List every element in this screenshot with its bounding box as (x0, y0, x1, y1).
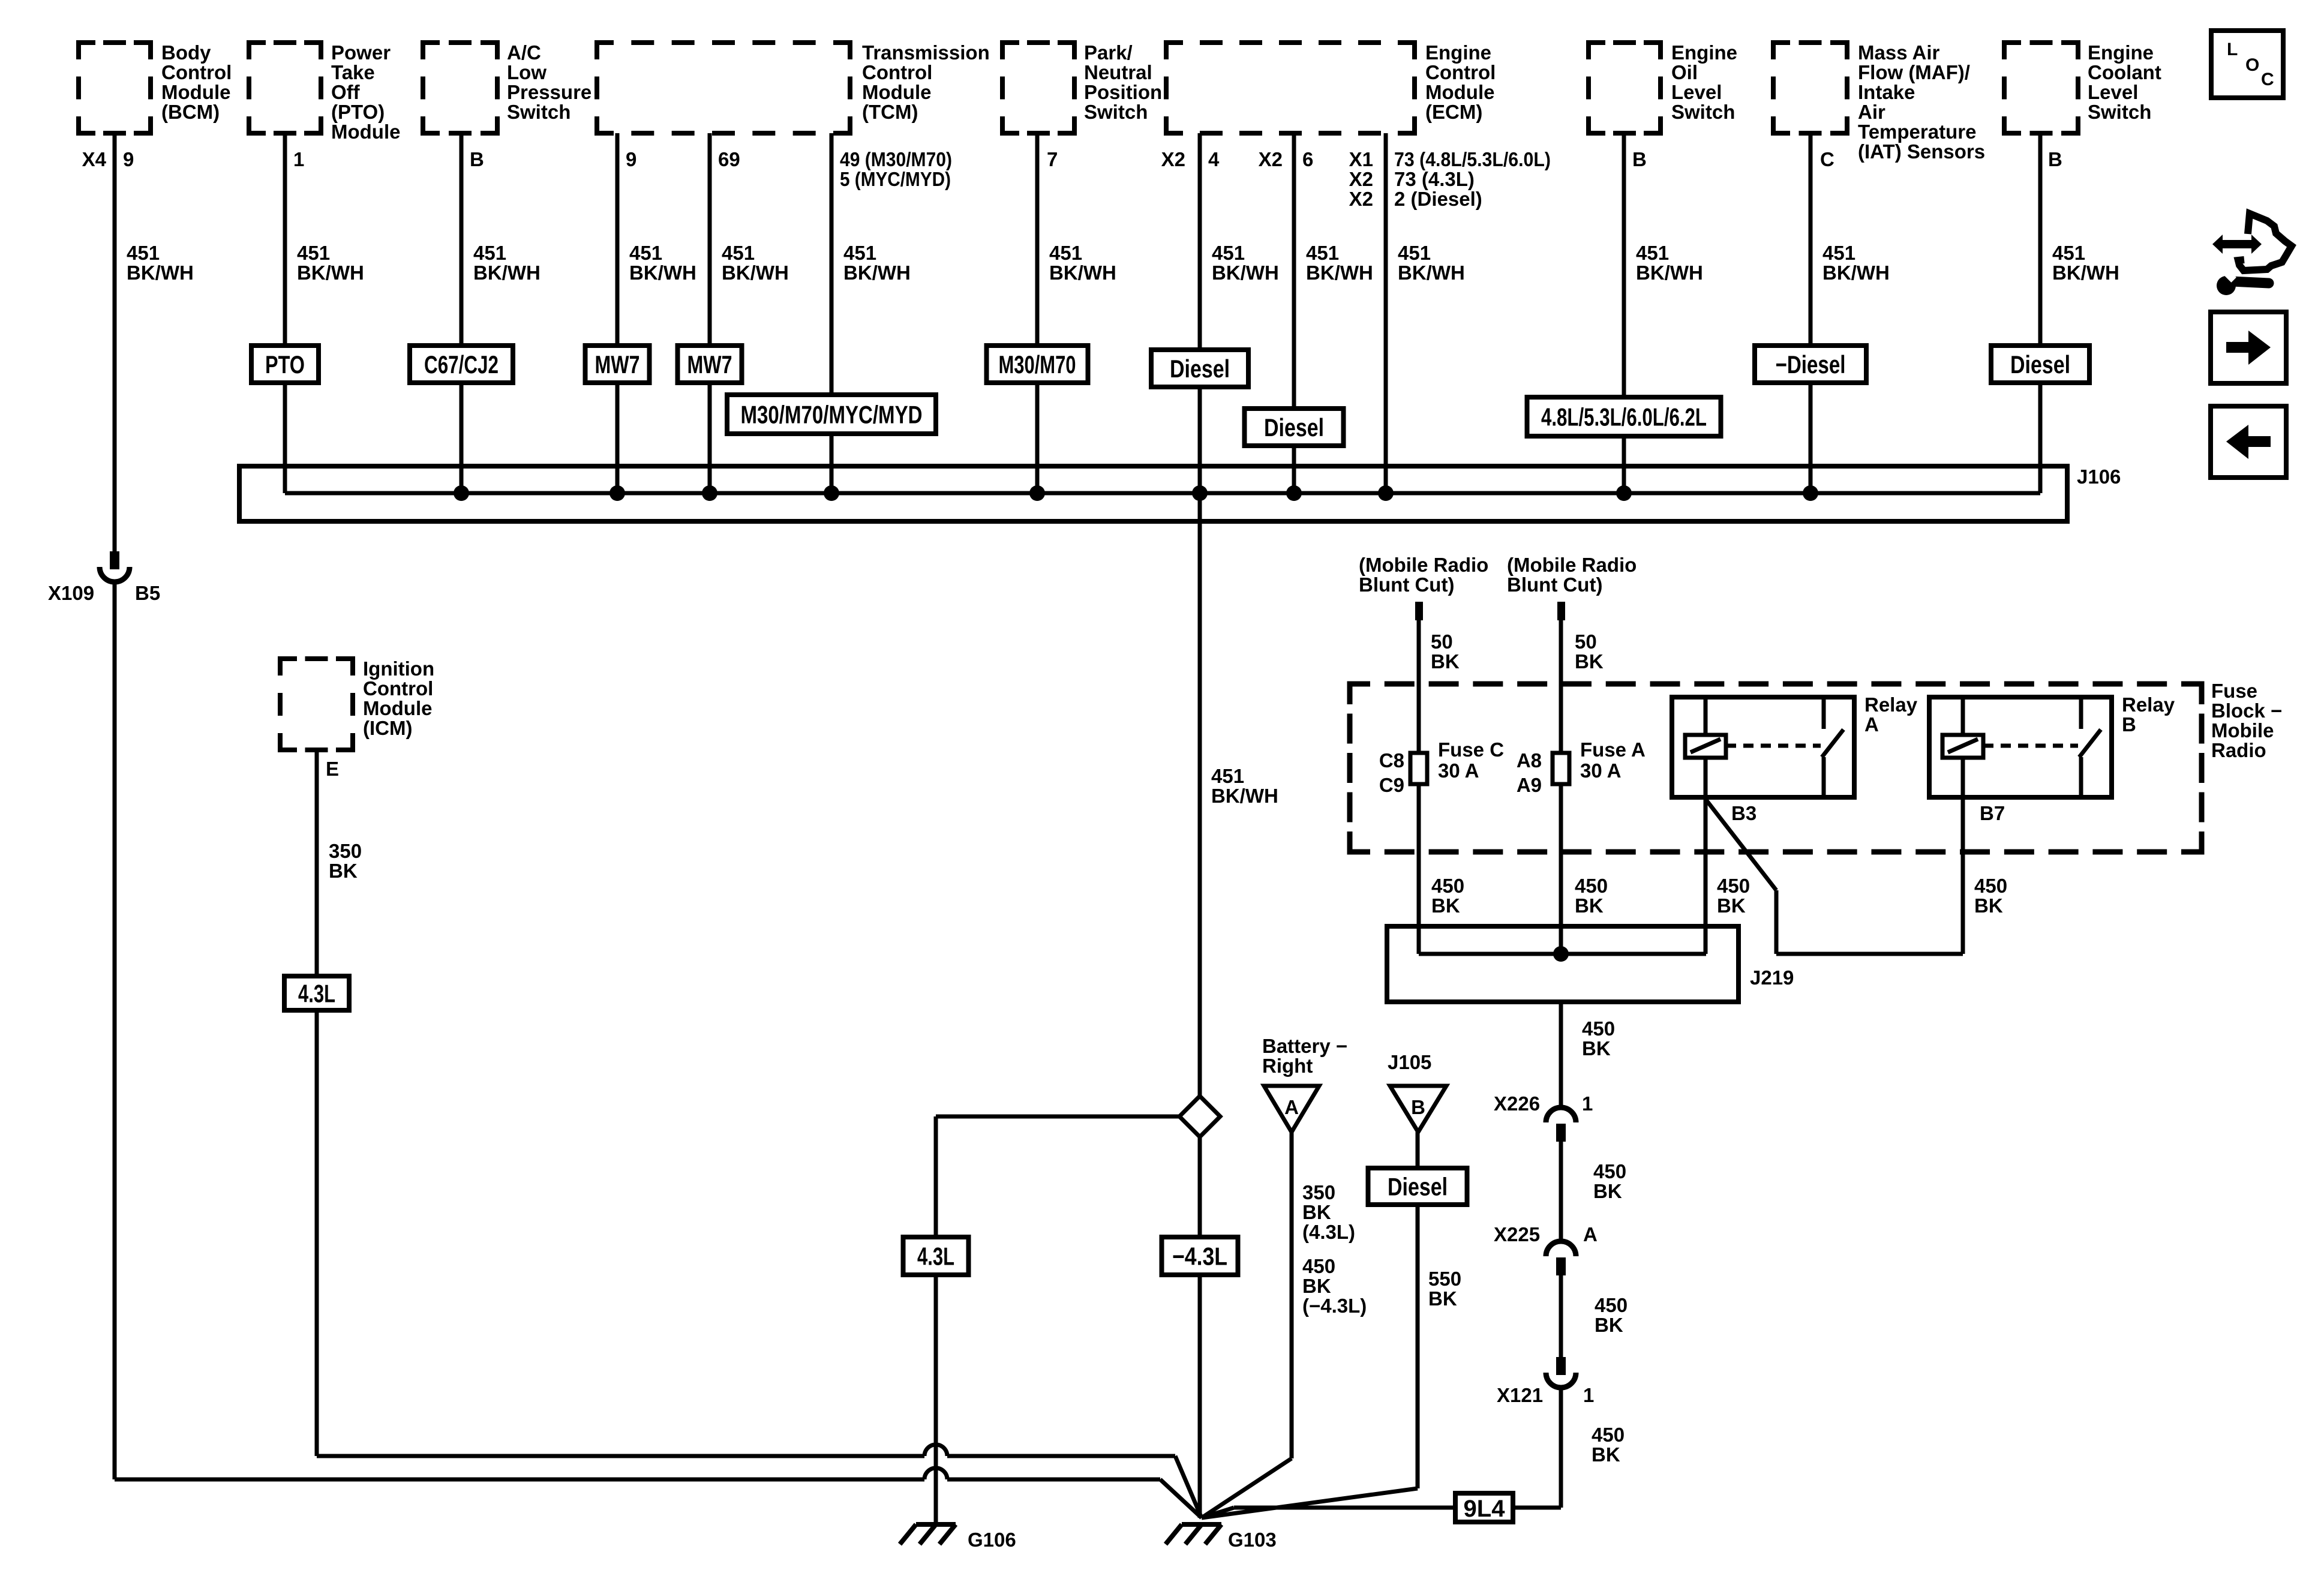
svg-text:BK: BK (1717, 894, 1746, 917)
svg-text:X2: X2 (1161, 148, 1185, 170)
svg-text:(Mobile Radio: (Mobile Radio (1359, 554, 1488, 576)
svg-text:Control: Control (363, 677, 433, 700)
svg-text:Right: Right (1262, 1055, 1313, 1077)
svg-text:Mobile: Mobile (2211, 719, 2274, 742)
svg-text:Body: Body (161, 41, 211, 64)
svg-text:X2: X2 (1349, 188, 1373, 210)
svg-text:6: 6 (1302, 148, 1313, 170)
svg-text:B: B (1411, 1096, 1425, 1118)
svg-text:Diesel: Diesel (1170, 355, 1230, 383)
svg-text:450: 450 (1575, 875, 1608, 897)
svg-text:BK/WH: BK/WH (1211, 785, 1278, 807)
svg-text:M30/M70/MYC/MYD: M30/M70/MYC/MYD (741, 401, 923, 429)
svg-text:Diesel: Diesel (2010, 350, 2070, 379)
svg-text:Relay: Relay (2122, 694, 2175, 716)
svg-text:PTO: PTO (265, 350, 305, 379)
svg-text:450: 450 (1592, 1424, 1625, 1446)
svg-text:Engine: Engine (2088, 41, 2154, 64)
svg-text:A: A (1864, 713, 1879, 736)
svg-text:Radio: Radio (2211, 739, 2266, 761)
svg-text:4: 4 (1208, 148, 1220, 170)
svg-text:L: L (2227, 40, 2238, 59)
svg-text:50: 50 (1431, 631, 1453, 653)
svg-text:Pressure: Pressure (507, 81, 591, 103)
svg-text:BK: BK (1582, 1037, 1611, 1059)
svg-text:B7: B7 (1980, 802, 2005, 824)
svg-text:Neutral: Neutral (1084, 61, 1152, 83)
svg-text:(IAT) Sensors: (IAT) Sensors (1858, 140, 1985, 163)
svg-text:X4: X4 (82, 148, 107, 170)
svg-text:7: 7 (1047, 148, 1058, 170)
svg-text:BK: BK (1428, 1287, 1457, 1310)
svg-text:C67/CJ2: C67/CJ2 (424, 350, 499, 379)
svg-text:(PTO): (PTO) (331, 101, 385, 123)
svg-text:MW7: MW7 (687, 350, 732, 379)
svg-text:X109: X109 (48, 582, 94, 604)
svg-text:30 A: 30 A (1580, 760, 1621, 782)
svg-text:MW7: MW7 (595, 350, 640, 379)
svg-text:Engine: Engine (1425, 41, 1491, 64)
svg-text:Diesel: Diesel (1264, 413, 1324, 442)
svg-text:451: 451 (1211, 765, 1244, 787)
svg-text:451: 451 (1636, 242, 1669, 264)
svg-text:9L4: 9L4 (1464, 1496, 1506, 1522)
svg-text:451: 451 (127, 242, 160, 264)
svg-text:Switch: Switch (2088, 101, 2151, 123)
svg-text:A: A (1583, 1223, 1598, 1245)
svg-text:2 (Diesel): 2 (Diesel) (1394, 188, 1482, 210)
svg-text:Fuse A: Fuse A (1580, 739, 1646, 761)
svg-text:B: B (470, 148, 484, 170)
svg-text:451: 451 (1306, 242, 1339, 264)
svg-text:450: 450 (1582, 1017, 1615, 1040)
svg-text:Air: Air (1858, 101, 1885, 123)
svg-text:49 (M30/M70): 49 (M30/M70) (840, 148, 952, 170)
svg-text:Ignition: Ignition (363, 658, 434, 680)
svg-text:Coolant: Coolant (2088, 61, 2161, 83)
svg-text:BK: BK (1302, 1275, 1331, 1297)
svg-text:BK: BK (1974, 894, 2003, 917)
svg-text:73 (4.8L/5.3L/6.0L): 73 (4.8L/5.3L/6.0L) (1394, 148, 1551, 170)
svg-text:X225: X225 (1494, 1223, 1540, 1245)
svg-text:BK/WH: BK/WH (843, 262, 911, 284)
svg-text:Intake: Intake (1858, 81, 1915, 103)
svg-text:B: B (1632, 148, 1647, 170)
svg-text:BK/WH: BK/WH (2052, 262, 2119, 284)
svg-text:69: 69 (718, 148, 740, 170)
svg-text:E: E (326, 758, 339, 780)
svg-text:Transmission: Transmission (862, 41, 990, 64)
svg-text:Module: Module (331, 121, 400, 143)
svg-text:A9: A9 (1517, 774, 1542, 796)
svg-text:X1: X1 (1349, 148, 1373, 170)
svg-text:1: 1 (293, 148, 304, 170)
svg-text:B: B (2122, 713, 2136, 736)
svg-text:Engine: Engine (1671, 41, 1737, 64)
svg-text:J219: J219 (1750, 966, 1794, 989)
svg-text:Switch: Switch (507, 101, 571, 123)
svg-text:BK: BK (1595, 1314, 1623, 1336)
svg-text:Battery −: Battery − (1262, 1035, 1347, 1057)
svg-text:Flow (MAF)/: Flow (MAF)/ (1858, 61, 1970, 83)
svg-text:5 (MYC/MYD): 5 (MYC/MYD) (840, 168, 951, 190)
svg-text:451: 451 (1822, 242, 1855, 264)
svg-text:451: 451 (1212, 242, 1245, 264)
svg-text:451: 451 (297, 242, 330, 264)
svg-text:J105: J105 (1388, 1051, 1431, 1073)
svg-text:Low: Low (507, 61, 547, 83)
svg-text:BK: BK (1592, 1443, 1620, 1466)
svg-text:BK/WH: BK/WH (473, 262, 541, 284)
svg-text:G103: G103 (1228, 1529, 1277, 1551)
svg-text:BK: BK (1302, 1201, 1331, 1223)
svg-text:BK/WH: BK/WH (722, 262, 789, 284)
svg-text:BK/WH: BK/WH (1212, 262, 1279, 284)
svg-text:350: 350 (329, 840, 362, 862)
svg-text:A8: A8 (1517, 749, 1542, 772)
svg-text:Fuse C: Fuse C (1438, 739, 1504, 761)
svg-text:451: 451 (473, 242, 506, 264)
svg-text:9: 9 (626, 148, 636, 170)
svg-text:C8: C8 (1379, 749, 1404, 772)
svg-text:451: 451 (1049, 242, 1082, 264)
svg-text:C: C (1820, 148, 1834, 170)
svg-text:(BCM): (BCM) (161, 101, 220, 123)
svg-text:M30/M70: M30/M70 (999, 350, 1076, 379)
svg-text:Switch: Switch (1084, 101, 1148, 123)
svg-text:BK/WH: BK/WH (127, 262, 194, 284)
svg-text:Temperature: Temperature (1858, 121, 1976, 143)
svg-text:Module: Module (862, 81, 931, 103)
svg-text:(Mobile Radio: (Mobile Radio (1507, 554, 1637, 576)
svg-text:Fuse: Fuse (2211, 680, 2257, 702)
svg-text:X226: X226 (1494, 1092, 1540, 1115)
svg-text:50: 50 (1575, 631, 1597, 653)
svg-text:450: 450 (1595, 1294, 1628, 1316)
svg-text:Control: Control (862, 61, 932, 83)
svg-text:Diesel: Diesel (1388, 1173, 1448, 1201)
svg-text:BK: BK (1593, 1180, 1622, 1202)
svg-text:BK/WH: BK/WH (1049, 262, 1116, 284)
svg-text:Control: Control (1425, 61, 1496, 83)
svg-text:9: 9 (123, 148, 134, 170)
svg-text:Park/: Park/ (1084, 41, 1133, 64)
svg-text:4.3L: 4.3L (917, 1242, 954, 1271)
svg-text:450: 450 (1717, 875, 1750, 897)
svg-text:Take: Take (331, 61, 375, 83)
svg-text:−Diesel: −Diesel (1776, 350, 1846, 379)
svg-text:B: B (2048, 148, 2062, 170)
svg-text:Position: Position (1084, 81, 1162, 103)
svg-text:(−4.3L): (−4.3L) (1302, 1295, 1367, 1317)
svg-text:X2: X2 (1349, 168, 1373, 190)
svg-text:Module: Module (1425, 81, 1494, 103)
svg-text:Module: Module (363, 697, 432, 719)
svg-text:450: 450 (1302, 1255, 1335, 1277)
svg-text:Level: Level (1671, 81, 1722, 103)
svg-text:Off: Off (331, 81, 361, 103)
svg-text:4.8L/5.3L/6.0L/6.2L: 4.8L/5.3L/6.0L/6.2L (1541, 403, 1707, 431)
svg-text:1: 1 (1582, 1092, 1593, 1115)
svg-text:Blunt Cut): Blunt Cut) (1507, 574, 1602, 596)
svg-text:O: O (2245, 55, 2259, 75)
svg-text:350: 350 (1302, 1181, 1335, 1203)
svg-text:550: 550 (1428, 1268, 1461, 1290)
svg-text:BK: BK (1431, 894, 1460, 917)
svg-text:451: 451 (629, 242, 662, 264)
svg-text:450: 450 (1974, 875, 2007, 897)
svg-text:BK: BK (1431, 650, 1460, 673)
svg-text:(ICM): (ICM) (363, 717, 412, 739)
svg-text:G106: G106 (968, 1529, 1016, 1551)
svg-text:X121: X121 (1497, 1384, 1543, 1406)
svg-text:Block −: Block − (2211, 700, 2282, 722)
svg-text:X2: X2 (1259, 148, 1283, 170)
svg-text:451: 451 (2052, 242, 2085, 264)
svg-text:BK/WH: BK/WH (1636, 262, 1703, 284)
svg-text:451: 451 (722, 242, 755, 264)
svg-text:Oil: Oil (1671, 61, 1698, 83)
svg-text:451: 451 (1398, 242, 1431, 264)
svg-text:30 A: 30 A (1438, 760, 1479, 782)
svg-text:Control: Control (161, 61, 232, 83)
svg-text:BK/WH: BK/WH (629, 262, 696, 284)
svg-text:(ECM): (ECM) (1425, 101, 1482, 123)
svg-text:A: A (1284, 1096, 1299, 1118)
svg-text:Power: Power (331, 41, 391, 64)
svg-text:Relay: Relay (1864, 694, 1918, 716)
svg-text:Mass Air: Mass Air (1858, 41, 1939, 64)
svg-text:451: 451 (843, 242, 876, 264)
svg-text:BK: BK (1575, 650, 1604, 673)
svg-text:BK/WH: BK/WH (297, 262, 364, 284)
svg-text:Blunt Cut): Blunt Cut) (1359, 574, 1454, 596)
svg-text:(TCM): (TCM) (862, 101, 918, 123)
svg-text:−4.3L: −4.3L (1172, 1242, 1227, 1271)
svg-text:Level: Level (2088, 81, 2138, 103)
svg-text:C: C (2261, 70, 2274, 89)
svg-text:B5: B5 (135, 582, 160, 604)
svg-text:Module: Module (161, 81, 230, 103)
svg-text:4.3L: 4.3L (298, 980, 335, 1008)
svg-text:BK/WH: BK/WH (1822, 262, 1890, 284)
svg-text:450: 450 (1593, 1160, 1626, 1182)
svg-text:BK/WH: BK/WH (1398, 262, 1465, 284)
svg-text:BK/WH: BK/WH (1306, 262, 1373, 284)
svg-text:A/C: A/C (507, 41, 541, 64)
svg-text:C9: C9 (1379, 774, 1404, 796)
svg-text:B3: B3 (1731, 802, 1756, 824)
svg-text:Switch: Switch (1671, 101, 1735, 123)
svg-text:BK: BK (1575, 894, 1604, 917)
svg-text:73 (4.3L): 73 (4.3L) (1394, 168, 1475, 190)
svg-text:1: 1 (1583, 1384, 1594, 1406)
svg-text:450: 450 (1431, 875, 1464, 897)
svg-text:BK: BK (329, 860, 358, 882)
svg-text:(4.3L): (4.3L) (1302, 1221, 1355, 1243)
svg-text:J106: J106 (2077, 466, 2121, 488)
